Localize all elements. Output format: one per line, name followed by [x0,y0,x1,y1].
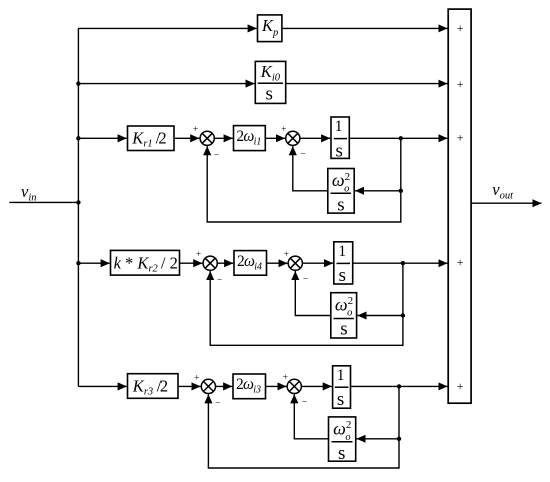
svg-text:1: 1 [335,118,343,135]
block integrator 1 [331,117,349,158]
svg-text:s: s [265,83,272,104]
svg-text:vout: vout [492,180,514,202]
wire bus to Kr1 [78,137,126,139]
block Kr1/2 [128,126,175,151]
svg-text:+: + [457,379,464,393]
node bus-Kr2 [76,261,80,265]
svg-text:−: − [300,150,305,160]
svg-text:+: + [283,373,288,383]
wire w3 box to circle 3b [294,394,328,439]
wire 2wi4 to circle 2b [267,262,288,264]
node tap 3 mid [397,437,401,441]
fraction bar Ki0/s [258,82,283,84]
wire circle 1b to integrator 1 [300,137,330,139]
svg-text:+: + [284,250,289,260]
svg-text:s: s [337,194,344,215]
fraction bar w3 [332,441,353,443]
wire Kr2 to circle 2a [180,262,203,264]
wire circle 3a to 2wi3 [216,385,233,387]
svg-text:+: + [457,77,464,91]
node bus-Ki0 [76,81,80,85]
summing circle 2b [288,256,302,270]
wire Kr3 to circle 3a [178,385,201,387]
summing circle 3a [201,379,215,393]
fraction bar integrator 2 [337,262,351,264]
wire w2 box to circle 2b [295,271,331,316]
svg-text:−: − [303,275,308,285]
svg-text:−: − [215,399,220,409]
summing circle 1a [200,131,214,145]
block Kr3/2 [128,374,179,399]
input line v_in [9,201,78,203]
block 2wi3 [233,374,266,399]
svg-text:1: 1 [338,243,346,260]
svg-text:−: − [302,398,307,408]
svg-text:1: 1 [337,367,345,384]
wire Kr1 to sum circle 1a [174,137,199,139]
svg-text:s: s [338,443,345,464]
svg-text:s: s [335,140,342,161]
wire bus to Kp [78,27,256,29]
fraction bar integrator 1 [334,138,347,140]
output wire v_out [471,202,541,204]
bus vertical line [77,28,79,386]
svg-text:−: − [214,150,219,160]
block integrator 2 [334,242,353,284]
node tap 2 mid [401,313,405,317]
wire bus to Kr2 [78,262,109,264]
svg-text:+: + [196,250,201,260]
svg-text:+: + [194,373,199,383]
fraction bar w1 [331,192,352,194]
wire bus to Ki0 [78,83,254,85]
fraction bar w2 [334,318,354,320]
summing circle 3b [287,379,301,393]
summing bar [448,9,471,403]
svg-text:+: + [457,130,464,144]
feedback outer loop branch 3 [208,386,399,468]
wire circle 2a to 2wi4 [217,262,233,264]
wire 2wi1 to circle 1b [265,137,285,139]
block 2wi4 [234,251,267,276]
svg-text:+: + [193,125,198,135]
node tap 3 top [397,384,401,388]
svg-text:−: − [217,275,222,285]
wire w1 box to circle 1b [293,146,328,191]
svg-text:s: s [337,389,344,410]
svg-text:+: + [281,125,286,135]
wire circle 2b to integrator 2 [302,262,333,264]
svg-text:vin: vin [21,182,37,204]
svg-text:+: + [457,255,464,269]
block integrator 3 [333,366,351,408]
feedback outer loop branch 2 [210,263,403,345]
block Ki0/s [255,61,285,103]
wire tap to w1 box [355,190,401,192]
summing circle 2a [203,256,217,270]
svg-text:k * Kr2 / 2: k * Kr2 / 2 [114,253,178,274]
block w1 [328,169,354,214]
wire 2wi3 to circle 3b [266,385,287,387]
svg-text:+: + [457,21,464,35]
fraction bar integrator 3 [335,386,349,388]
node tap 1 mid [399,189,403,193]
wire bus to Kr3 [78,385,126,387]
summing circle 1b [286,131,300,145]
wire integrator 1 to summing bar [349,137,447,139]
wire circle 1a to 2wi1 [214,137,233,139]
block w3 [329,417,356,461]
block w2 [331,293,357,338]
svg-text:s: s [339,265,346,286]
feedback outer loop branch 1 [207,138,401,222]
block 2wi1 [234,126,266,151]
node bus-Kr1 [76,136,80,140]
wire tap to w2 box [357,315,403,317]
wire circle 3b to integrator 3 [301,385,332,387]
block k*Kr2/2 [111,250,180,275]
wire integrator 2 to summing bar [353,262,448,264]
node input junction [76,200,80,204]
block Kp [258,15,282,42]
node tap 1 top [399,136,403,140]
wire integrator 3 to summing bar [351,385,448,387]
wire tap to w3 box [357,438,400,440]
wire Ki0 to summing bar [286,83,448,85]
svg-text:s: s [340,319,347,340]
wire Kp to summing bar [282,27,448,29]
node tap 2 top [401,261,405,265]
